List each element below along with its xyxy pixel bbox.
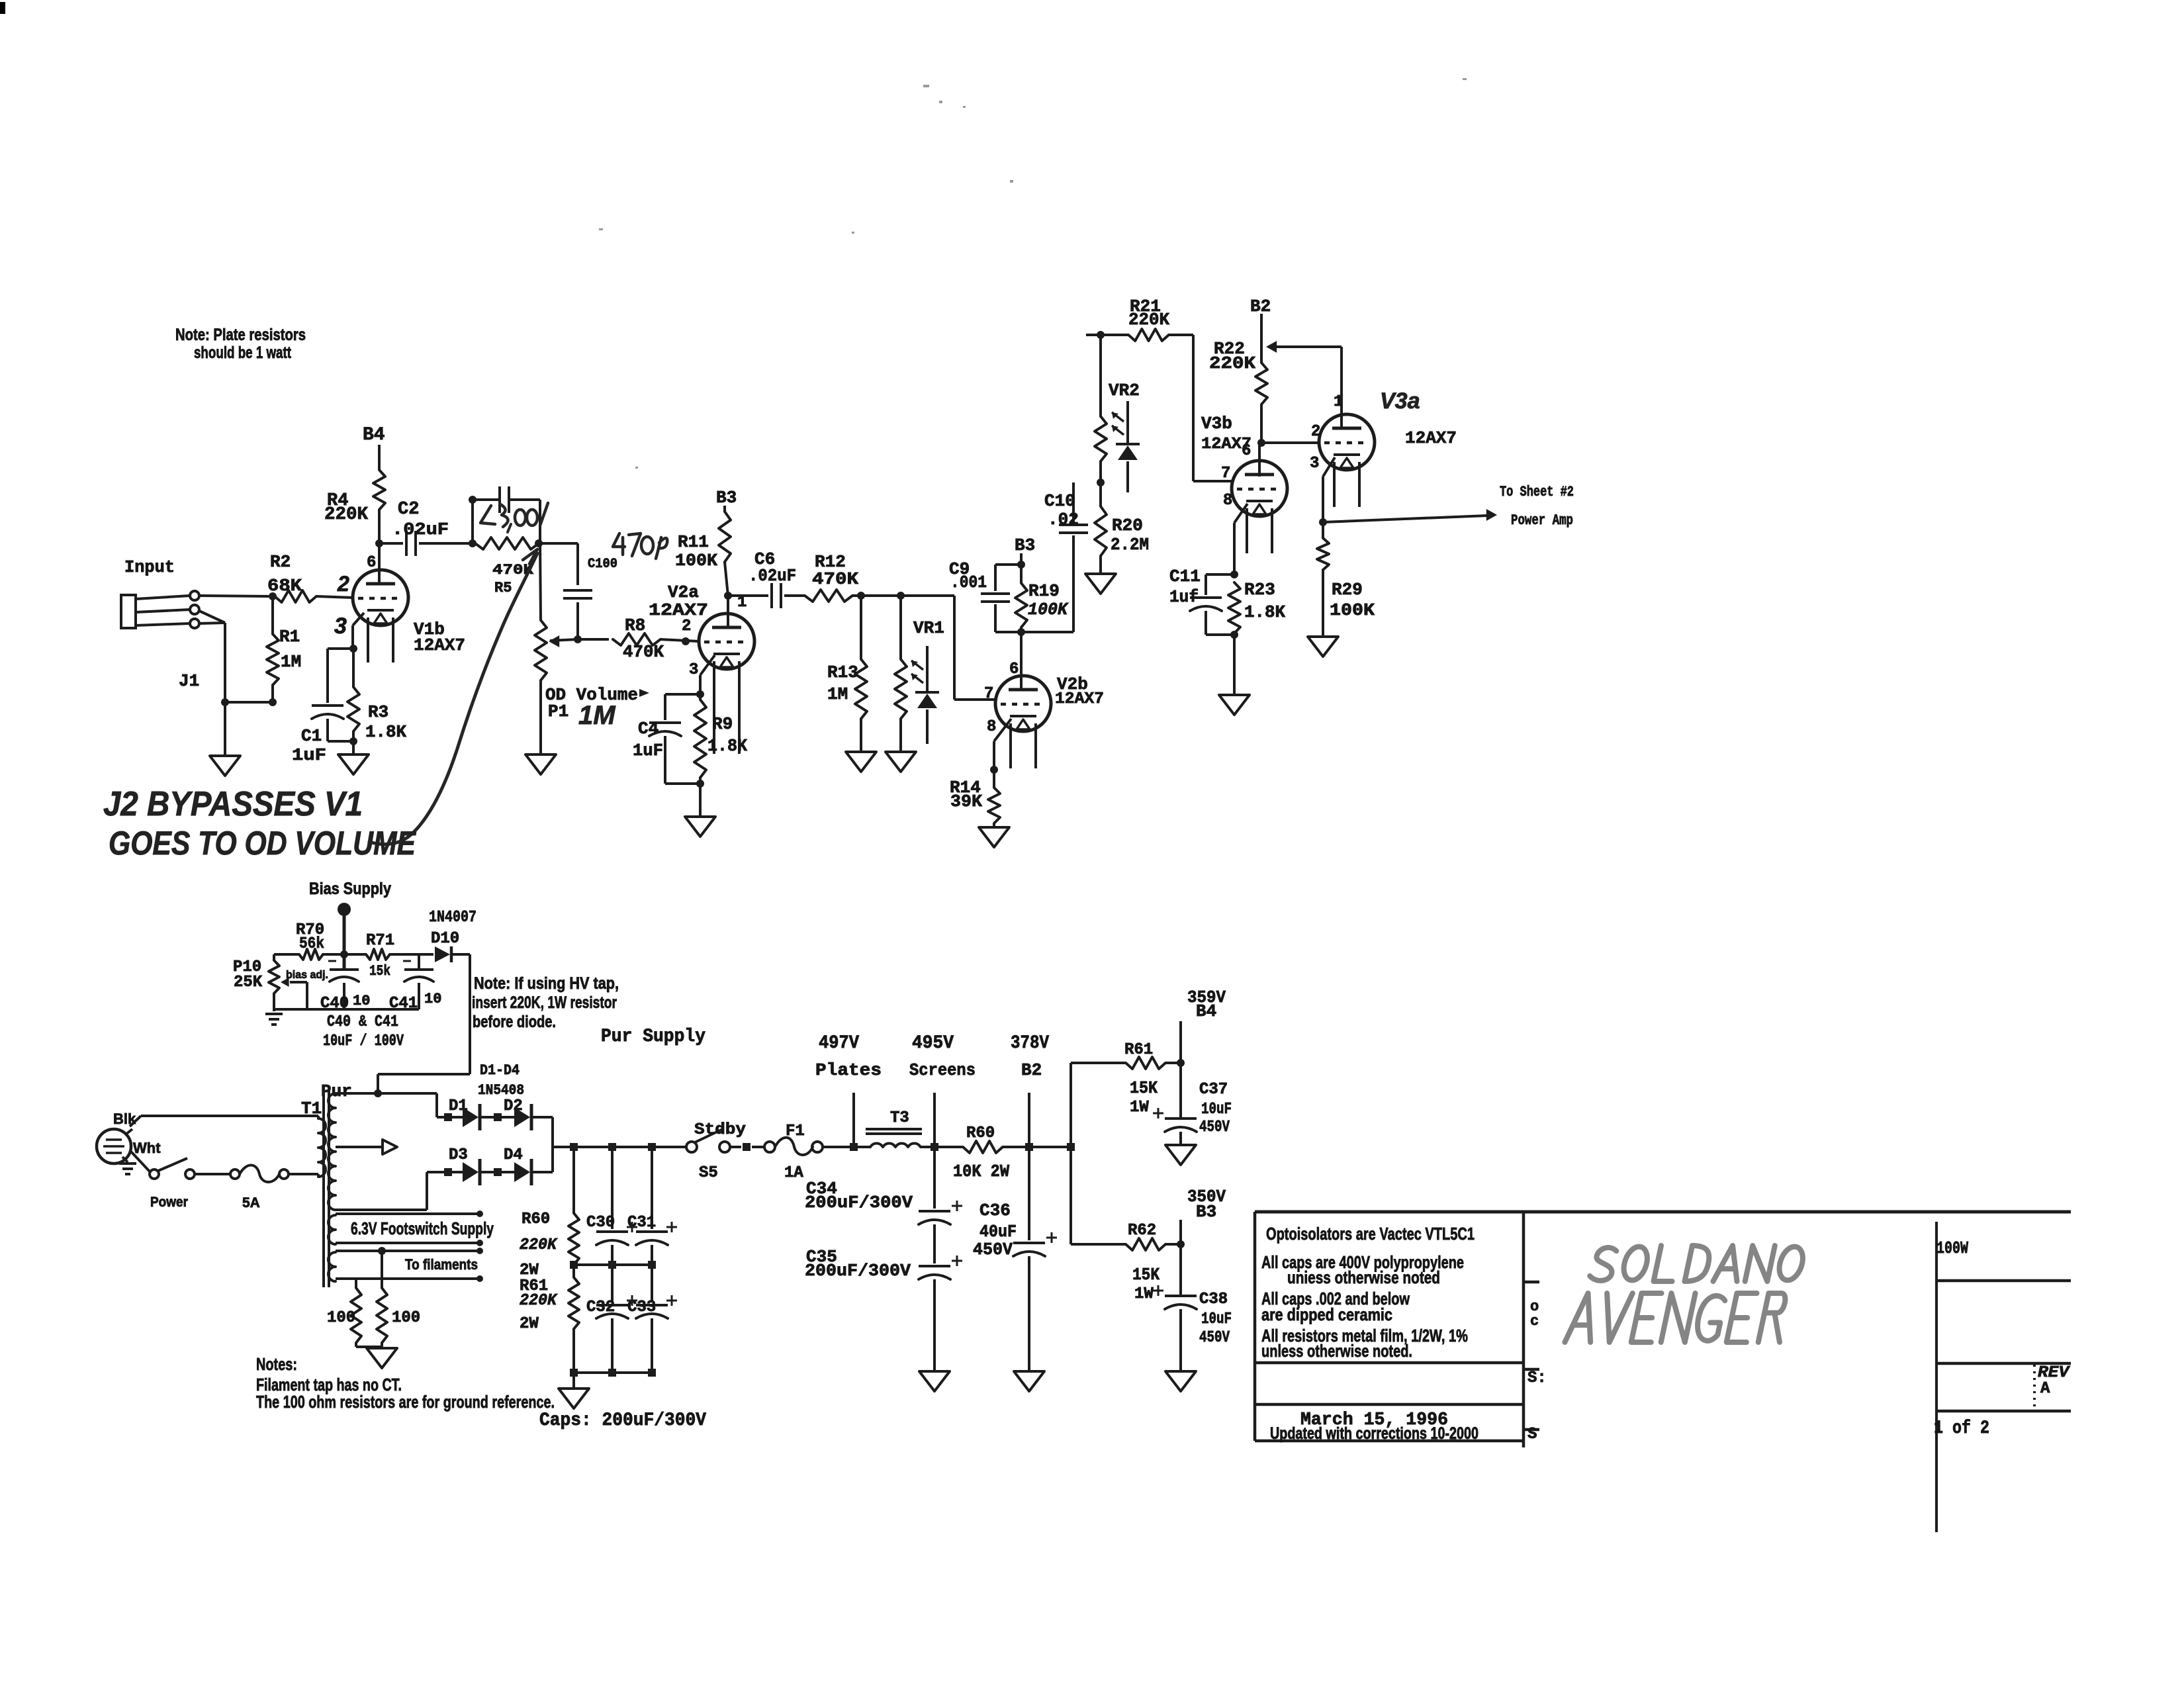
svg-text:220K: 220K: [1128, 310, 1169, 330]
svg-text:40uF: 40uF: [979, 1222, 1017, 1242]
svg-text:6: 6: [1242, 442, 1251, 460]
svg-text:To filaments: To filaments: [405, 1256, 478, 1273]
svg-text:R61: R61: [1124, 1041, 1153, 1059]
svg-text:C2: C2: [398, 500, 419, 520]
svg-text:10: 10: [353, 993, 370, 1009]
svg-text:1M: 1M: [827, 684, 848, 704]
svg-text:100: 100: [327, 1309, 355, 1327]
svg-text:A: A: [2040, 1380, 2050, 1398]
svg-text:B2: B2: [1021, 1060, 1042, 1080]
svg-text:R1: R1: [279, 627, 300, 647]
svg-text:220K: 220K: [324, 505, 369, 525]
svg-text:200uF/300V: 200uF/300V: [805, 1193, 913, 1212]
svg-text:J2 BYPASSES V1: J2 BYPASSES V1: [103, 785, 363, 823]
svg-text:R8: R8: [625, 616, 645, 635]
svg-text:100: 100: [392, 1309, 420, 1327]
svg-text:1N5408: 1N5408: [478, 1082, 524, 1099]
svg-text:C38: C38: [1199, 1291, 1228, 1308]
svg-text:Notes:: Notes:: [256, 1354, 297, 1374]
svg-text:Note: Plate resistors: Note: Plate resistors: [175, 326, 306, 344]
svg-text:10uF: 10uF: [1201, 1310, 1232, 1328]
svg-text:6: 6: [1009, 661, 1019, 678]
svg-text:12AX7: 12AX7: [414, 635, 465, 655]
svg-text:450V: 450V: [1199, 1119, 1230, 1136]
svg-text:220K: 220K: [520, 1292, 559, 1310]
svg-text:B4: B4: [363, 425, 385, 445]
svg-text:1uf: 1uf: [1169, 587, 1199, 607]
svg-text:C40 & C41: C40 & C41: [327, 1013, 398, 1031]
svg-text:Input: Input: [124, 557, 175, 577]
svg-text:56k: 56k: [299, 935, 324, 953]
svg-text:V2a: V2a: [668, 582, 699, 602]
svg-text:c: c: [1530, 1313, 1539, 1330]
svg-text:.02: .02: [1048, 510, 1079, 529]
svg-text:7: 7: [984, 685, 993, 703]
svg-text:200uF/300V: 200uF/300V: [805, 1261, 911, 1281]
svg-text:R71: R71: [366, 932, 394, 950]
svg-text:C37: C37: [1199, 1081, 1228, 1099]
svg-text:3: 3: [1310, 455, 1319, 473]
svg-text:R20: R20: [1112, 516, 1143, 535]
svg-text:1W: 1W: [1130, 1099, 1149, 1117]
svg-text:Pur: Pur: [321, 1081, 352, 1101]
svg-text:are dipped ceramic: are dipped ceramic: [1261, 1304, 1392, 1324]
svg-text:1.8K: 1.8K: [365, 722, 406, 742]
svg-text:Plates: Plates: [815, 1060, 882, 1080]
svg-text:R23: R23: [1244, 580, 1275, 600]
svg-text:V3b: V3b: [1201, 414, 1232, 434]
svg-text:V3a: V3a: [1380, 388, 1420, 414]
svg-text:100K: 100K: [1028, 600, 1069, 619]
svg-text:1M: 1M: [578, 701, 616, 730]
svg-text:39K: 39K: [950, 792, 982, 811]
svg-text:470K: 470K: [623, 642, 664, 662]
svg-text:1: 1: [1334, 393, 1343, 411]
svg-text:B4: B4: [1196, 1001, 1216, 1021]
svg-text:B3: B3: [1015, 535, 1035, 555]
svg-text:6.3V Footswitch Supply: 6.3V Footswitch Supply: [351, 1218, 494, 1238]
svg-text:1N4007: 1N4007: [429, 909, 477, 927]
svg-text:bias adj.: bias adj.: [286, 968, 328, 981]
svg-text:C36: C36: [979, 1201, 1011, 1220]
svg-text:8: 8: [1223, 492, 1232, 510]
svg-text:10: 10: [424, 991, 441, 1007]
svg-text:R9: R9: [712, 714, 733, 734]
svg-text:10uF / 100V: 10uF / 100V: [323, 1032, 404, 1050]
svg-text:unless otherwise noted.: unless otherwise noted.: [1261, 1341, 1412, 1361]
svg-text:The 100 ohm resistors are for: The 100 ohm resistors are for ground ref…: [256, 1392, 555, 1412]
svg-text:100K: 100K: [1330, 600, 1375, 620]
svg-text:before diode.: before diode.: [473, 1013, 556, 1031]
svg-text:.001: .001: [950, 572, 987, 592]
svg-text:15K: 15K: [1132, 1265, 1160, 1285]
svg-text:S:: S:: [1527, 1369, 1547, 1387]
svg-text:To Sheet #2: To Sheet #2: [1500, 484, 1574, 500]
svg-text:15K: 15K: [1130, 1078, 1158, 1098]
svg-text:100K: 100K: [675, 551, 717, 571]
svg-text:220K: 220K: [520, 1236, 559, 1254]
svg-text:2: 2: [682, 617, 691, 635]
svg-text:5A: 5A: [242, 1195, 260, 1211]
svg-text:J1: J1: [179, 671, 199, 691]
svg-text:12AX7: 12AX7: [649, 600, 708, 620]
svg-text:R5: R5: [494, 580, 512, 596]
svg-text:T3: T3: [890, 1109, 909, 1127]
svg-text:Bias Supply: Bias Supply: [309, 880, 391, 898]
svg-text:Blk: Blk: [113, 1111, 136, 1127]
svg-text:2W: 2W: [520, 1315, 539, 1333]
svg-text:1M: 1M: [281, 652, 301, 672]
svg-text:8: 8: [987, 718, 996, 736]
svg-text:1W: 1W: [1134, 1285, 1154, 1303]
svg-text:1.8K: 1.8K: [1244, 602, 1285, 622]
svg-text:C30: C30: [586, 1214, 615, 1232]
svg-text:2: 2: [337, 572, 349, 596]
svg-text:insert 220K, 1W resistor: insert 220K, 1W resistor: [472, 993, 617, 1012]
svg-text:Screens: Screens: [909, 1060, 976, 1080]
svg-text:470K: 470K: [812, 569, 858, 589]
svg-text:R62: R62: [1128, 1222, 1156, 1240]
svg-text:15k: 15k: [369, 963, 390, 980]
svg-text:Wht: Wht: [133, 1140, 161, 1156]
svg-text:B3: B3: [716, 488, 737, 508]
svg-text:220K: 220K: [1209, 353, 1255, 373]
svg-text:R2: R2: [270, 552, 291, 572]
svg-text:1uF: 1uF: [292, 745, 326, 765]
svg-text:2: 2: [1311, 423, 1320, 441]
svg-text:D1-D4: D1-D4: [480, 1062, 520, 1079]
svg-text:P1: P1: [548, 702, 569, 721]
svg-text:C4: C4: [638, 719, 659, 739]
svg-text:.02uF: .02uF: [749, 566, 796, 586]
svg-text:497V: 497V: [819, 1033, 859, 1054]
svg-text:12AX7: 12AX7: [1405, 428, 1457, 448]
svg-text:Updated with corrections 10-20: Updated with corrections 10-2000: [1270, 1424, 1479, 1443]
svg-text:C40: C40: [320, 995, 349, 1013]
svg-text:R11: R11: [678, 532, 709, 552]
svg-text:7: 7: [1221, 465, 1230, 482]
svg-text:3: 3: [334, 614, 347, 639]
svg-text:R60: R60: [966, 1124, 995, 1142]
svg-text:C32: C32: [586, 1299, 615, 1316]
svg-text:R13: R13: [827, 663, 858, 682]
svg-text:D10: D10: [431, 930, 459, 948]
svg-text:Optoisolators are Vactec VTL5C: Optoisolators are Vactec VTL5C1: [1266, 1224, 1475, 1244]
svg-text:450V: 450V: [1199, 1329, 1230, 1347]
svg-text:C1: C1: [301, 726, 322, 746]
svg-text:1.8K: 1.8K: [707, 736, 747, 756]
svg-text:Stdby: Stdby: [694, 1121, 746, 1139]
svg-text:378V: 378V: [1011, 1033, 1049, 1054]
svg-text:B2: B2: [1250, 297, 1271, 316]
svg-text:S5: S5: [699, 1164, 718, 1182]
svg-text:6: 6: [367, 554, 376, 572]
svg-text:68K: 68K: [267, 576, 302, 596]
svg-text:.02uF: .02uF: [392, 520, 449, 539]
svg-text:D3: D3: [449, 1146, 468, 1164]
svg-text:Caps: 200uF/300V: Caps: 200uF/300V: [539, 1410, 706, 1431]
svg-text:REV: REV: [2038, 1364, 2071, 1382]
svg-text:B3: B3: [1196, 1202, 1216, 1222]
svg-text:Power Amp: Power Amp: [1511, 512, 1573, 529]
svg-text:3: 3: [689, 661, 698, 679]
svg-text:1 of 2: 1 of 2: [1934, 1418, 1989, 1439]
svg-text:C41: C41: [389, 995, 418, 1013]
svg-text:S: S: [1527, 1426, 1537, 1443]
svg-text:R29: R29: [1332, 580, 1363, 600]
svg-text:1uF: 1uF: [633, 741, 663, 760]
svg-text:495V: 495V: [912, 1033, 954, 1054]
svg-text:10uF: 10uF: [1201, 1101, 1232, 1119]
svg-text:2.2M: 2.2M: [1111, 535, 1149, 555]
svg-text:R3: R3: [368, 702, 388, 722]
svg-text:F1: F1: [786, 1122, 805, 1140]
svg-text:Note: If using HV tap,: Note: If using HV tap,: [474, 974, 619, 993]
svg-text:450V: 450V: [973, 1240, 1013, 1259]
svg-text:VR2: VR2: [1109, 381, 1140, 400]
svg-text:R60: R60: [522, 1211, 550, 1228]
svg-text:C11: C11: [1169, 567, 1201, 586]
svg-text:C10: C10: [1044, 491, 1075, 511]
svg-text:100W: 100W: [1936, 1238, 1968, 1258]
svg-text:C100: C100: [588, 557, 617, 572]
svg-text:1A: 1A: [784, 1164, 803, 1182]
svg-text:uniess otherwise noted: uniess otherwise noted: [1287, 1267, 1440, 1287]
svg-text:VR1: VR1: [913, 618, 944, 638]
svg-text:2W: 2W: [520, 1261, 539, 1279]
svg-text:Pur Supply: Pur Supply: [601, 1027, 705, 1047]
svg-text:R19: R19: [1028, 581, 1060, 601]
svg-text:Power: Power: [150, 1195, 188, 1210]
svg-text:D4: D4: [504, 1146, 523, 1164]
svg-text:should be 1 watt: should be 1 watt: [194, 343, 291, 362]
svg-text:12AX7: 12AX7: [1055, 690, 1104, 708]
svg-text:GOES TO OD VOLUME: GOES TO OD VOLUME: [109, 825, 416, 862]
svg-text:10K 2W: 10K 2W: [953, 1162, 1009, 1181]
svg-text:25K: 25K: [234, 974, 263, 991]
